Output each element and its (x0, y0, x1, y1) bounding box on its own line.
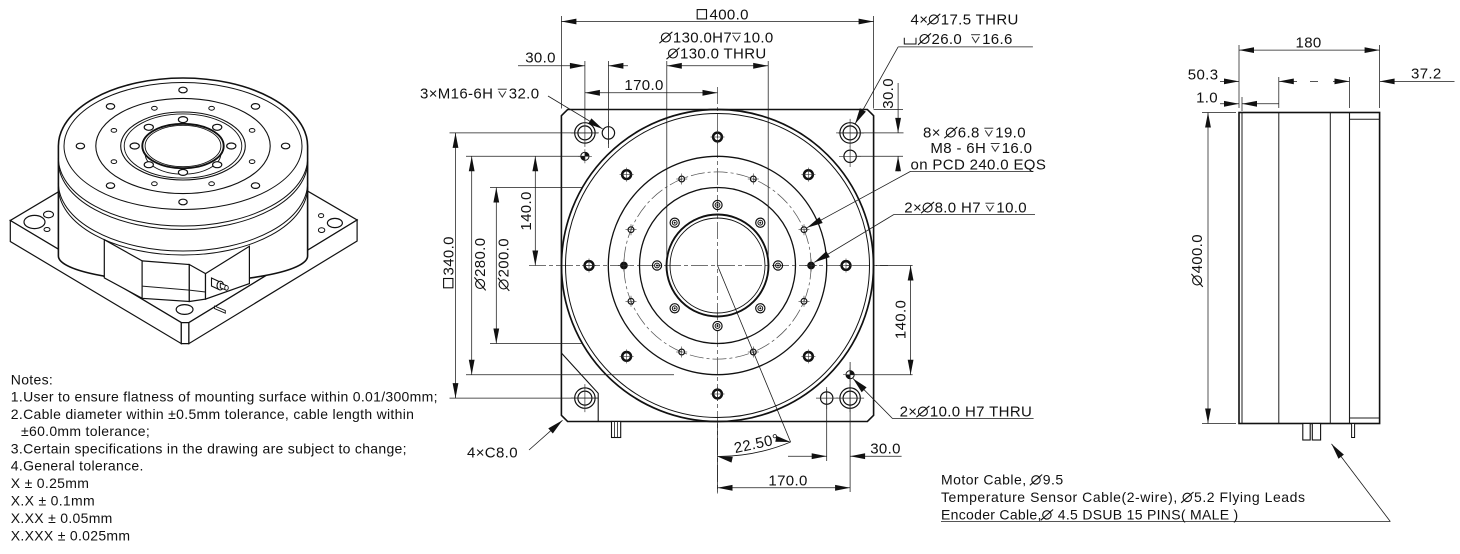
dimension 170.0 top (585, 92, 718, 94)
dimension 30.0 top-left (518, 65, 585, 67)
iso motor connector box middle face (142, 261, 189, 302)
svg-text:4.General tolerance.: 4.General tolerance. (11, 458, 144, 474)
svg-text:Temperature Sensor Cable(2-wir: Temperature Sensor Cable(2-wire), (941, 489, 1182, 505)
iso center bore dia 130 (142, 124, 223, 168)
iso cylinder rim lip arcs (58, 158, 307, 226)
M16 hole top-right (844, 150, 856, 162)
circle dia 200 (640, 188, 796, 344)
iso corner bolt hole left (24, 215, 45, 228)
2x dia8 H7 dowel holes on PCD240 (808, 262, 815, 269)
svg-text:30.0: 30.0 (525, 50, 556, 67)
iso motor connector box right face (206, 246, 250, 299)
svg-text:3.Certain specifications in th: 3.Certain specifications in the drawing … (11, 441, 407, 457)
iso motor connector box left face (104, 240, 142, 299)
svg-text:140.0: 140.0 (893, 300, 910, 339)
svg-text:10.0: 10.0 (743, 30, 774, 47)
dimension 50.3 side (1220, 80, 1239, 82)
leader to corner bolt top-right (855, 47, 898, 124)
dimension sq400 top (561, 21, 873, 23)
svg-text:Encoder Cable,: Encoder Cable, (941, 507, 1042, 523)
iso top face dia 200 ellipses (121, 112, 246, 180)
extension lines 30.0 top (584, 61, 586, 120)
svg-text:26.0: 26.0 (932, 31, 972, 48)
outer circle dia 400 (562, 110, 874, 422)
leader 3xM16 (548, 96, 603, 129)
svg-text:×: × (908, 404, 917, 421)
center bore dia 130 (667, 215, 769, 317)
M16 hole bottom-right (821, 392, 833, 404)
leader to PCD240 hole 22.5deg (807, 171, 911, 227)
iso cylinder mid seam arcs (58, 183, 307, 251)
svg-text:8.0 H7: 8.0 H7 (935, 200, 986, 217)
corner bolt holes 4x dia17.5 cbore26 (575, 123, 595, 143)
svg-text:×: × (919, 11, 928, 28)
dowel pin dia10 bottom-right (846, 371, 854, 379)
svg-text:30.0: 30.0 (880, 78, 897, 109)
dimension 170.0 bottom (718, 487, 851, 489)
cable leader side view (1332, 444, 1391, 522)
cable gland on plan bottom edge (612, 422, 621, 438)
dimension 30.0 right vertical (874, 109, 903, 111)
iso corner bolt hole front (176, 305, 193, 315)
svg-text:4: 4 (467, 445, 476, 462)
dimension dia400 side vertical (1202, 112, 1236, 114)
encoder cover inset lines (1350, 118, 1380, 120)
leader to dia8 dowel at 0deg (814, 215, 894, 263)
svg-text:±60.0mm tolerance;: ±60.0mm tolerance; (21, 423, 150, 439)
dowel pin dia10 top-left (581, 152, 589, 160)
svg-text:2: 2 (904, 200, 913, 217)
dimension 1.0 side (1220, 103, 1239, 105)
svg-text:×: × (429, 86, 438, 103)
isometric view: base plate top face (10, 118, 357, 323)
svg-text:130.0 THRU: 130.0 THRU (680, 46, 767, 63)
side view inner vertical lines (1241, 113, 1243, 424)
iso cylinder body silhouette (58, 78, 307, 282)
iso pin hole left corner (44, 228, 50, 232)
svg-text:130.0H7: 130.0H7 (673, 30, 732, 47)
svg-text:X.X ± 0.1mm: X.X ± 0.1mm (11, 493, 95, 509)
dimension 140.0 right vertical (876, 265, 913, 267)
base plate side faces (10, 221, 181, 344)
extension lines bottom dims (717, 424, 719, 493)
svg-text:Notes:: Notes: (11, 372, 53, 388)
svg-text:32.0: 32.0 (509, 86, 540, 103)
leader to dia10 dowel bottom-right (853, 378, 893, 418)
svg-text:×: × (913, 200, 922, 217)
dimension 140.0 left vertical (534, 156, 536, 265)
iso PCD240 holes (8x) (249, 129, 255, 133)
label dia130 H7 depth (661, 33, 670, 42)
svg-text:1.0: 1.0 (1196, 90, 1218, 107)
bolt circle PCD240 dash-dot (624, 172, 811, 359)
side view cable stubs (1303, 424, 1310, 441)
svg-text:10.0 H7 THRU: 10.0 H7 THRU (930, 404, 1032, 421)
svg-text:Motor Cable,: Motor Cable, (941, 472, 1031, 488)
dimension dia280 left vertical (466, 155, 585, 157)
dimension 37.2 side (1333, 80, 1350, 82)
iso corner bolt hole right (327, 218, 342, 227)
iso motor connector box corner face (189, 265, 205, 302)
svg-text:30.0: 30.0 (870, 441, 901, 458)
extension lines top corners (560, 16, 562, 109)
iso pin hole right corner (318, 228, 324, 233)
svg-text:200.0: 200.0 (496, 238, 513, 277)
M16 hole top-left (602, 127, 614, 139)
iso M16 hole right corner (319, 214, 324, 218)
rotor holes 8x on PCD156 (773, 261, 782, 270)
dimension 22.50 degrees arc (718, 442, 791, 457)
dimension dia200 left vertical (490, 187, 582, 189)
side view body outline (1239, 113, 1380, 424)
svg-text:9.5: 9.5 (1043, 472, 1064, 488)
inner circle of outer rim (566, 114, 870, 418)
22.5 degree construction line (718, 266, 791, 443)
svg-text:4: 4 (911, 11, 920, 28)
dimension 30.0 bottom (788, 455, 827, 457)
svg-text:340.0: 340.0 (441, 236, 458, 275)
svg-text:5.2 Flying Leads: 5.2 Flying Leads (1194, 489, 1306, 505)
svg-text:140.0: 140.0 (518, 191, 535, 230)
8x dia6.8 M8 holes on PCD240 (801, 227, 807, 233)
iso top face groove ellipse dia 280 (96, 98, 270, 193)
svg-text:280.0: 280.0 (472, 238, 489, 277)
svg-text:3: 3 (420, 86, 429, 103)
svg-text:22.50: 22.50 (733, 432, 775, 457)
svg-text:X.XXX ± 0.025mm: X.XXX ± 0.025mm (11, 528, 131, 544)
circle dia 280 (608, 156, 826, 374)
svg-text:37.2: 37.2 (1411, 66, 1442, 83)
iso top face rim inner ellipse (64, 83, 302, 210)
svg-text:2.Cable diameter within ±0.5mm: 2.Cable diameter within ±0.5mm tolerance… (11, 406, 414, 422)
iso encoder pin (215, 306, 226, 313)
svg-text:17.5 THRU: 17.5 THRU (941, 11, 1019, 28)
dimension dia130 bore (666, 61, 668, 261)
svg-text:16.0: 16.0 (1002, 140, 1033, 157)
svg-text:400.0: 400.0 (1189, 234, 1206, 273)
svg-text:M16-6H: M16-6H (438, 86, 498, 103)
iso rotor holes (8x) (227, 143, 236, 149)
encoder cable leader underline (941, 521, 1390, 523)
svg-text:C8.0: C8.0 (485, 445, 518, 462)
svg-text:×: × (476, 445, 485, 462)
svg-text:50.3: 50.3 (1188, 67, 1219, 84)
square plate outline with chamfered corners (561, 110, 873, 422)
iso outer bolt circle holes (8x) (281, 143, 289, 149)
svg-text:X ± 0.25mm: X ± 0.25mm (11, 475, 89, 491)
svg-text:16.6: 16.6 (982, 31, 1013, 48)
dimension 180 side top (1238, 45, 1240, 108)
svg-text:on PCD 240.0 EQS: on PCD 240.0 EQS (911, 156, 1047, 173)
label dia130 THRU (669, 49, 678, 58)
svg-text:400.0: 400.0 (710, 7, 749, 24)
svg-text:4.5 DSUB 15 PINS( MALE ): 4.5 DSUB 15 PINS( MALE ) (1054, 507, 1239, 523)
svg-text:1.User to ensure flatness of m: 1.User to ensure flatness of mounting su… (11, 389, 438, 405)
svg-text:170.0: 170.0 (624, 77, 663, 94)
bottom-left corner pocket outline (561, 353, 598, 422)
dimension sq340 left vertical (450, 132, 599, 134)
iso cable connector cylinder (212, 278, 220, 290)
outer ring holes 8x on PCD330 (842, 261, 851, 270)
svg-text:170.0: 170.0 (768, 473, 807, 490)
plan view centerline vertical (717, 87, 719, 494)
svg-text:2: 2 (900, 404, 909, 421)
svg-text:X.XX ± 0.05mm: X.XX ± 0.05mm (11, 510, 113, 526)
svg-text:180: 180 (1296, 35, 1322, 52)
svg-text:10.0: 10.0 (996, 200, 1027, 217)
iso M16 hole left corner (44, 211, 54, 218)
svg-text:M8 - 6H: M8 - 6H (930, 140, 990, 157)
plan view centerline horizontal (529, 265, 888, 267)
iso bore floor arc (145, 154, 221, 175)
